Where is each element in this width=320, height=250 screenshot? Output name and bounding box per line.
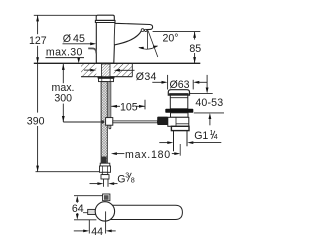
deck top line	[34, 62, 201, 64]
waste rod clamp knob	[157, 117, 168, 125]
tick 44 left	[88, 220, 90, 234]
svg-text:64: 64	[72, 203, 84, 215]
svg-text:390: 390	[27, 116, 45, 128]
hose G3/8 nut	[100, 166, 111, 172]
arrow up at knob top	[36, 15, 39, 21]
dimension 127 / 390 vertical line	[37, 15, 39, 171]
extension line bottom (64)	[74, 219, 96, 221]
waste tailpipe	[173, 131, 175, 152]
dimension 85	[194, 32, 196, 63]
rod clamp block	[106, 118, 113, 126]
tick 105 right	[144, 100, 146, 110]
supply pipe end	[104, 179, 109, 187]
label max.180 with arrows	[111, 152, 117, 155]
arrow down at hose end (390)	[36, 166, 39, 172]
spout outlet top view	[103, 194, 110, 201]
faucet knob cap	[95, 15, 115, 22]
extension line hose end (390)	[36, 171, 101, 173]
svg-text:105: 105	[120, 101, 138, 113]
20 deg vertical ray	[147, 30, 149, 50]
pull rod vertical	[109, 82, 111, 129]
dimension 40-53	[190, 93, 213, 95]
extension line rod level	[63, 121, 100, 123]
Ø63 dimension	[167, 75, 169, 90]
lever top view	[106, 205, 182, 219]
pull-rod knob on body	[88, 48, 96, 53]
svg-text:4: 4	[214, 132, 218, 141]
svg-text:85: 85	[189, 43, 201, 55]
Ø45 right arrow at body edge	[114, 41, 120, 44]
extension line knob top	[34, 14, 96, 16]
stub left of body	[88, 209, 97, 214]
body circle top view	[95, 202, 114, 221]
mounting shank in deck hole	[102, 64, 111, 77]
20 deg slanted ray	[148, 31, 158, 58]
pop-up waste flange dome	[168, 90, 189, 96]
extension line top (64)	[74, 195, 103, 197]
svg-text:Ø 45: Ø 45	[63, 33, 85, 45]
waste body	[168, 117, 189, 126]
svg-text:20°: 20°	[163, 32, 179, 44]
dimension 105	[111, 105, 120, 107]
extension line spout outlet	[153, 31, 201, 33]
svg-text:max.180: max.180	[125, 149, 171, 161]
centerline under circle	[105, 211, 107, 233]
20 deg arc with arrows	[139, 46, 158, 49]
rod end cap	[101, 120, 105, 123]
arrow down at rod level (max300)	[62, 116, 65, 122]
svg-text:Ø34: Ø34	[136, 71, 157, 83]
dimension max.300 vertical line	[62, 64, 64, 122]
tailpipe centerline extension	[179, 144, 181, 156]
deck slab hatched	[81, 63, 132, 76]
waste seal band (black)	[165, 109, 193, 113]
dimension 64	[76, 196, 79, 202]
waste union nut	[171, 126, 189, 130]
svg-text:max.30: max.30	[46, 46, 83, 58]
waste neck	[171, 113, 189, 118]
arrow down at deck (127)	[36, 57, 39, 63]
horizontal waste rod	[113, 121, 158, 123]
aerator	[141, 29, 144, 32]
braided flexible hose	[101, 82, 107, 164]
hose small tube	[102, 172, 107, 174]
faucet body and spout silhouette	[96, 23, 152, 64]
svg-text:300: 300	[54, 93, 72, 105]
svg-text:8: 8	[131, 176, 135, 185]
inner body right edge	[113, 23, 116, 45]
hose lower fitting	[101, 175, 109, 179]
G3/8 arrows	[97, 182, 103, 185]
svg-text:127: 127	[29, 35, 47, 47]
arrow up at deck (max300)	[62, 64, 65, 70]
hose lower collar	[100, 163, 110, 166]
washer under deck	[98, 77, 115, 79]
svg-text:44: 44	[91, 226, 103, 238]
svg-text:40-53: 40-53	[195, 97, 223, 109]
waste upper cylinder	[170, 95, 188, 109]
svg-text:Ø63: Ø63	[170, 79, 190, 91]
Ø34 arrows at deck hole	[90, 69, 96, 72]
svg-text:G1: G1	[194, 130, 208, 142]
mounting nut	[99, 78, 114, 81]
dimension 44	[74, 230, 85, 232]
